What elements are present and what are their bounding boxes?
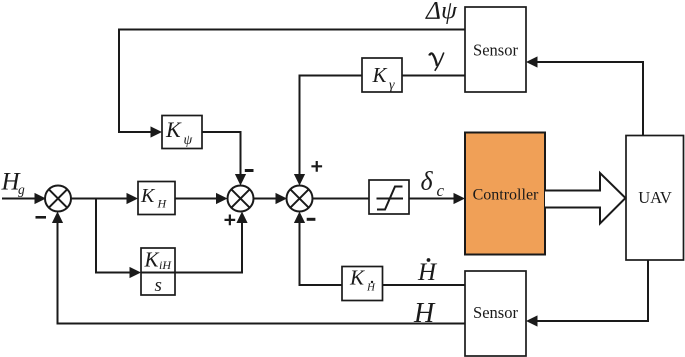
- wire branch down to KiH: [96, 199, 141, 279]
- label minus at S1: [36, 216, 47, 219]
- label KH: [140, 185, 168, 211]
- wire S1 to KH: [71, 193, 138, 204]
- svg-text:UAV: UAV: [638, 188, 672, 207]
- wire Kgamma down to S3: [294, 76, 362, 186]
- svg-text:K: K: [372, 63, 388, 87]
- label Kpsi: [165, 117, 193, 148]
- svg-text:Sensor: Sensor: [473, 41, 518, 60]
- block KHdot: [342, 267, 383, 301]
- wire gamma path from Sensor to Kgamma: [402, 75, 465, 77]
- wire KH to S2: [175, 193, 228, 204]
- wire top feedback from Sensor to Kpsi: [119, 30, 465, 138]
- block UAV: [626, 136, 684, 261]
- svg-text:g: g: [18, 182, 25, 197]
- svg-text:Sensor: Sensor: [473, 303, 518, 322]
- svg-text:δ: δ: [421, 167, 434, 196]
- wire Kpsi output down to S2: [202, 132, 246, 186]
- wire S2 to S3: [254, 193, 288, 204]
- saturation block: [369, 180, 409, 214]
- svg-text:K: K: [140, 185, 156, 207]
- hollow arrow Controller to UAV: [545, 173, 626, 224]
- svg-text:iH: iH: [159, 258, 172, 272]
- block KH: [138, 182, 175, 215]
- wire S3 to saturation: [313, 198, 370, 200]
- label Hdot: [417, 258, 438, 286]
- block KiH/s: [141, 248, 175, 295]
- svg-text:γ: γ: [389, 78, 395, 93]
- block Kgamma: [362, 58, 402, 92]
- summing junction S1: [45, 186, 71, 212]
- svg-text:s: s: [155, 275, 162, 296]
- wire saturation to Controller: [409, 193, 465, 204]
- label minus at S2: [245, 169, 254, 172]
- wire Hdot feedback up to S3: [294, 212, 342, 286]
- label delta c: [421, 167, 445, 201]
- summing junction S2: [228, 186, 254, 212]
- svg-text:Controller: Controller: [473, 187, 539, 204]
- svg-text:c: c: [437, 181, 445, 200]
- svg-text:K: K: [349, 266, 365, 290]
- wire Hg input: [2, 193, 46, 204]
- wire H feedback to S1: [52, 212, 465, 324]
- label KHdot: [349, 266, 376, 294]
- svg-text:K: K: [144, 248, 160, 272]
- wire UAV bottom to Sensor bottom: [526, 260, 648, 327]
- block Sensor bottom: [465, 271, 526, 356]
- label gamma: [429, 53, 444, 71]
- svg-text:K: K: [165, 117, 182, 142]
- label Kgamma: [372, 63, 396, 93]
- wire KiH/s up to S2: [175, 212, 248, 273]
- block Controller: [465, 133, 545, 255]
- label Hg: [1, 169, 26, 198]
- block Kpsi: [162, 116, 202, 149]
- svg-text:Δψ: Δψ: [425, 0, 458, 25]
- label minus at S3: [307, 218, 316, 221]
- label plus at S2: [225, 215, 236, 226]
- summing junction S3: [287, 186, 313, 212]
- wire UAV top to Sensor: [526, 56, 643, 135]
- svg-text:H: H: [366, 282, 376, 294]
- block Sensor top: [465, 7, 526, 92]
- svg-text:H: H: [417, 259, 438, 286]
- label KiH: [144, 248, 173, 273]
- label plus at S3: [311, 161, 322, 172]
- svg-text:ψ: ψ: [184, 133, 193, 148]
- svg-text:H: H: [413, 298, 436, 329]
- wire Sensor bottom to KHdot: [383, 284, 466, 286]
- svg-text:H: H: [157, 197, 168, 211]
